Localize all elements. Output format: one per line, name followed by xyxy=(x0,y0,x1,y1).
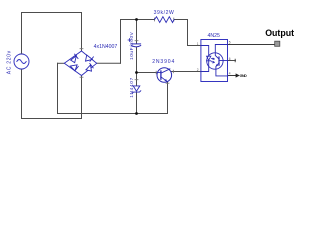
optocoupler U1 phototransistor emitter xyxy=(216,63,228,76)
optocoupler U1 phototransistor emitter arrow xyxy=(216,64,218,67)
svg-text:Output: Output xyxy=(265,28,294,38)
junction dot ground rail xyxy=(135,112,138,115)
wire bridge bottom vertical xyxy=(81,76,83,119)
AC source V1 circle xyxy=(14,54,29,69)
wire output xyxy=(228,44,275,46)
optocoupler U1 circle xyxy=(207,53,223,69)
pin tick collector xyxy=(172,70,174,73)
transistor Q1 circle xyxy=(157,68,172,83)
wire zener bottom lead xyxy=(136,93,138,114)
svg-text:5: 5 xyxy=(229,41,231,45)
svg-text:10uF/200V: 10uF/200V xyxy=(129,31,135,60)
svg-text:GND: GND xyxy=(240,74,247,78)
diode D4 lower-right xyxy=(86,64,93,72)
zener D5 triangle xyxy=(133,86,140,91)
pin tick bridge bottom xyxy=(80,76,83,78)
optocoupler U1 LED xyxy=(207,56,211,61)
svg-text:1: 1 xyxy=(197,42,199,46)
transistor Q1 emitter line xyxy=(161,77,167,82)
pin tick capacitor top xyxy=(135,40,138,42)
svg-text:2N3904: 2N3904 xyxy=(152,59,175,65)
transistor Q1 collector line xyxy=(161,69,170,73)
svg-text:AC 220v: AC 220v xyxy=(7,50,13,74)
wire resistor to corner xyxy=(174,19,188,21)
diode D2 upper-right xyxy=(86,55,94,61)
wire AC top to bridge top horizontal xyxy=(22,12,82,14)
wire opto pin6 stub xyxy=(228,59,236,62)
output terminal square xyxy=(275,41,280,46)
zener D5 bar xyxy=(132,91,141,94)
wire zener top lead xyxy=(136,73,138,86)
wire bridge top vertical xyxy=(81,13,83,51)
ground arrow xyxy=(236,73,240,77)
wire AC bottom horizontal xyxy=(22,118,82,120)
svg-text:1N4407: 1N4407 xyxy=(129,77,135,98)
transistor Q1 base bar xyxy=(160,71,162,79)
wire opto pin1 stub xyxy=(188,45,202,47)
svg-text:4x1N4007: 4x1N4007 xyxy=(94,44,118,50)
capacitor C1 plus sign xyxy=(128,39,131,42)
wire AC top vertical xyxy=(21,13,23,55)
diode D1 upper-left xyxy=(71,54,78,63)
junction dot base branch xyxy=(135,71,138,74)
wire ground branch vertical xyxy=(57,63,59,113)
pin tick resistor left xyxy=(153,18,155,21)
svg-text:39k/2W: 39k/2W xyxy=(154,10,175,16)
optocoupler U1 phototransistor base stub xyxy=(219,60,228,62)
pin tick bridge top xyxy=(80,48,83,50)
wire bridge right horizontal xyxy=(97,62,121,64)
wire capacitor top lead xyxy=(136,20,138,44)
svg-text:6: 6 xyxy=(229,57,231,61)
diode D3 lower-left xyxy=(70,65,78,71)
optocoupler U1 pin2 internal wire xyxy=(201,61,209,72)
wire bridge left to ground branch xyxy=(58,62,65,64)
svg-text:2: 2 xyxy=(197,68,199,72)
capacitor C1 plates xyxy=(132,44,141,47)
optocoupler U1 phototransistor collector xyxy=(215,45,227,60)
wire emitter vertical xyxy=(167,82,169,114)
svg-text:4: 4 xyxy=(229,72,231,76)
bridge diamond wires xyxy=(64,51,96,76)
pin tick emitter xyxy=(166,82,169,84)
pin tick AC source bottom xyxy=(20,68,23,70)
wire ground rail xyxy=(58,113,168,115)
wire capacitor bottom lead xyxy=(136,47,138,73)
wire plus rail to resistor xyxy=(121,19,155,21)
transistor Q1 emitter arrow xyxy=(164,79,167,82)
pin tick resistor right xyxy=(173,18,175,21)
wire AC bottom vertical xyxy=(21,69,23,119)
resistor R1 zigzag xyxy=(155,17,175,23)
pin tick base xyxy=(155,71,157,74)
optocoupler U1 box xyxy=(201,40,228,82)
junction dot plus rail xyxy=(135,18,138,21)
pin tick AC source top xyxy=(20,53,23,55)
wire plus rail vertical xyxy=(120,20,122,64)
pin tick zener top xyxy=(135,79,138,81)
AC source V1 sine xyxy=(17,60,26,64)
optocoupler U1 light arrows xyxy=(211,58,214,63)
svg-text:4N25: 4N25 xyxy=(208,33,221,39)
optocoupler U1 pin1 internal wire xyxy=(201,46,209,57)
wire corner down to opto pin1 xyxy=(187,20,189,46)
optocoupler U1 phototransistor bar xyxy=(218,57,220,65)
transistor Q1 base lead xyxy=(157,72,161,74)
wire base branch horizontal xyxy=(137,72,158,74)
wire collector to opto pin2 xyxy=(171,71,201,73)
wire opto pin4 stub xyxy=(228,75,236,77)
